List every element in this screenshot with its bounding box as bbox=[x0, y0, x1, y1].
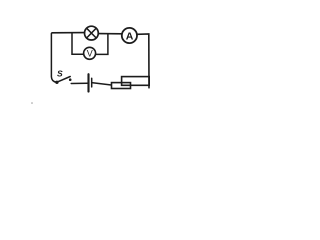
voltmeter V bbox=[84, 47, 96, 59]
lamp L1 (circle with X) bbox=[85, 26, 99, 40]
svg-text:A: A bbox=[126, 30, 134, 42]
svg-text:S: S bbox=[57, 68, 63, 78]
node: voltmeter branch left tap bbox=[71, 33, 73, 54]
wire: lamp to ammeter bbox=[98, 33, 121, 35]
switch S: right contact dot bbox=[69, 78, 72, 81]
switch S: blade bbox=[57, 77, 70, 83]
wire: top wire, left corner to lamp bbox=[52, 32, 85, 34]
battery cell: long plate bbox=[87, 74, 89, 91]
switch S: left contact dot bbox=[55, 81, 58, 84]
ammeter A bbox=[122, 28, 137, 43]
wire: left vertical with bottom curve to switch bbox=[51, 33, 56, 82]
wire: ammeter to top-right corner and right vertical bbox=[137, 34, 149, 88]
svg-text:V: V bbox=[87, 49, 93, 59]
wire: switch to battery bbox=[71, 82, 87, 84]
wire: battery to rheostat body bbox=[93, 83, 112, 85]
battery cell: short plate bbox=[91, 78, 93, 87]
speck artifact bbox=[31, 102, 33, 104]
wire: voltmeter branch bottom-left bbox=[72, 53, 84, 55]
rheostat R: body rectangle bbox=[112, 83, 131, 89]
wire: voltmeter branch bottom-right and right tap up to main wire bbox=[96, 34, 108, 54]
rheostat R: slider bar rectangle bbox=[122, 77, 150, 86]
